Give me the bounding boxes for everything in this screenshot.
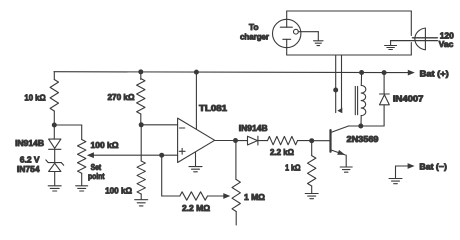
svg-text:IN4007: IN4007 bbox=[393, 94, 424, 104]
svg-text:IN914B: IN914B bbox=[15, 138, 44, 148]
svg-text:2.2 kΩ: 2.2 kΩ bbox=[270, 147, 294, 157]
svg-text:1 kΩ: 1 kΩ bbox=[285, 163, 301, 173]
svg-text:IN914B: IN914B bbox=[239, 123, 268, 133]
svg-text:2N3569: 2N3569 bbox=[347, 134, 379, 144]
svg-text:10 kΩ: 10 kΩ bbox=[24, 92, 45, 102]
svg-text:Bat (−): Bat (−) bbox=[419, 161, 447, 171]
svg-text:100 kΩ: 100 kΩ bbox=[105, 185, 132, 195]
svg-text:Bat (+): Bat (+) bbox=[420, 68, 449, 78]
svg-text:TL081: TL081 bbox=[199, 103, 227, 113]
svg-text:270 kΩ: 270 kΩ bbox=[108, 92, 135, 102]
svg-text:2.2 MΩ: 2.2 MΩ bbox=[182, 203, 210, 213]
svg-text:Set: Set bbox=[91, 163, 102, 172]
svg-text:Vac: Vac bbox=[439, 39, 454, 49]
svg-text:charger: charger bbox=[240, 32, 270, 42]
svg-text:1 MΩ: 1 MΩ bbox=[244, 192, 265, 202]
svg-text:100 kΩ: 100 kΩ bbox=[91, 140, 119, 150]
svg-text:point: point bbox=[88, 172, 105, 181]
svg-text:IN754: IN754 bbox=[17, 164, 40, 174]
